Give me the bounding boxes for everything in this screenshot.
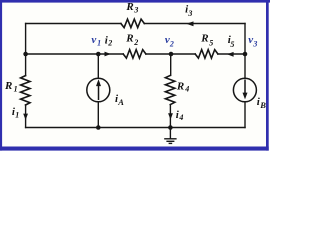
- resistor R4: [165, 75, 174, 104]
- current arrows (solid triangles): [23, 21, 247, 120]
- svg-text:A: A: [117, 97, 124, 107]
- wire R4 branch bottom: [169, 105, 171, 128]
- arrow i3 (left): [186, 21, 193, 26]
- svg-text:5: 5: [230, 40, 234, 49]
- wire iA branch top: [97, 54, 99, 78]
- arrow inside iB (down): [243, 93, 248, 100]
- resistor R5: [195, 50, 218, 59]
- ground bars: [164, 139, 176, 144]
- resistor R2: [123, 50, 146, 59]
- node: left junction of row2: [23, 52, 28, 57]
- arrow i1 (down): [23, 114, 28, 120]
- wire right vertical: [244, 24, 246, 79]
- svg-text:3: 3: [187, 9, 192, 18]
- wire top right segment: [144, 23, 245, 25]
- junction dots: [23, 52, 247, 130]
- svg-text:1: 1: [15, 111, 19, 120]
- wire second row: R2 to R5: [146, 53, 195, 55]
- svg-text:v: v: [91, 34, 96, 46]
- current source iA circle: [87, 78, 110, 102]
- wire R4 branch top: [170, 54, 172, 75]
- resistor R3: [121, 19, 144, 28]
- svg-text:2: 2: [133, 38, 138, 47]
- svg-text:R: R: [125, 32, 133, 44]
- svg-text:2: 2: [107, 39, 112, 48]
- arrow i2 (right): [105, 52, 111, 57]
- arrow i5 (left): [227, 52, 234, 57]
- svg-text:4: 4: [184, 84, 189, 93]
- svg-text:1: 1: [14, 84, 18, 93]
- arrow i4 (down): [168, 113, 173, 119]
- svg-text:R: R: [4, 80, 12, 92]
- svg-text:1: 1: [97, 38, 101, 47]
- resistor R1: [21, 76, 30, 105]
- svg-text:R: R: [176, 81, 184, 93]
- wire bottom: [26, 127, 245, 129]
- svg-text:3: 3: [252, 39, 257, 48]
- junction R4 bottom (ground node): [168, 125, 173, 130]
- current source iB circle: [233, 78, 256, 102]
- svg-text:3: 3: [133, 5, 138, 14]
- svg-text:4: 4: [178, 113, 183, 122]
- wire second row: R5 to v3: [218, 53, 245, 55]
- wire top left segment: [26, 23, 121, 25]
- node v3: [243, 52, 248, 57]
- arrow inside iA (up): [96, 79, 101, 86]
- svg-text:R: R: [125, 1, 133, 13]
- node v2: [169, 52, 174, 57]
- junction iA bottom: [96, 125, 101, 130]
- node v1: [96, 52, 101, 57]
- wire iA branch bottom: [97, 102, 99, 128]
- wire left vertical top: [25, 24, 27, 76]
- wire second row: left to R2: [26, 53, 124, 55]
- svg-text:5: 5: [209, 38, 213, 47]
- svg-text:2: 2: [169, 39, 174, 48]
- wire left vertical bottom: [25, 105, 27, 128]
- svg-text:B: B: [259, 100, 266, 110]
- ground stub: [169, 128, 171, 139]
- svg-text:R: R: [200, 32, 208, 44]
